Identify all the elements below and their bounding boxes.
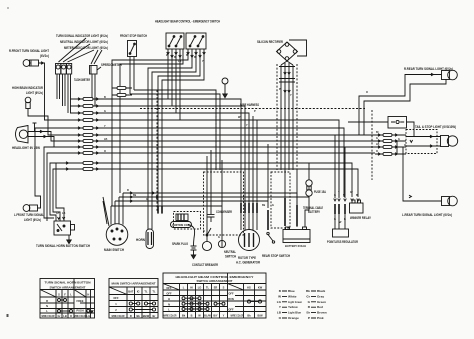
wire colour legend right column bbox=[306, 289, 327, 320]
svg-text:B: B bbox=[203, 230, 205, 233]
svg-text:LB: LB bbox=[376, 143, 380, 146]
dashed harness boundary line bbox=[140, 109, 372, 181]
svg-text:WINKER RELAY: WINKER RELAY bbox=[350, 216, 372, 220]
svg-text:WIRE HARNESS: WIRE HARNESS bbox=[240, 103, 259, 107]
wire bundle from harness down to turn signal switch bbox=[44, 147, 76, 221]
svg-text:Br: Br bbox=[194, 56, 197, 59]
svg-text:TAIL & STOP LIGHT (6V3/10W): TAIL & STOP LIGHT (6V3/10W) bbox=[415, 125, 456, 129]
joint arrows on rectifier bundle bbox=[279, 67, 295, 93]
harness branch wires turning down mid-field bbox=[130, 90, 268, 240]
lamp TAIL & STOP LIGHT bulb bbox=[441, 136, 458, 147]
svg-text:FUSE 15A: FUSE 15A bbox=[314, 190, 327, 194]
svg-text:NEUTRAL: NEUTRAL bbox=[224, 250, 236, 254]
wire from fuse to battery bbox=[305, 197, 309, 227]
lamp L.REAR TURN SIGNAL LIGHT bulb bbox=[442, 196, 458, 206]
lamp R.FRONT TURN SIGNAL LIGHT bulb bbox=[23, 60, 38, 67]
svg-text:POINTLESS REGULATOR: POINTLESS REGULATOR bbox=[327, 240, 359, 244]
MAIN SWITCH label bbox=[104, 248, 125, 252]
lamp HIGH BEAM INDICATOR label bbox=[12, 86, 44, 95]
svg-text:WIRE COLOR: WIRE COLOR bbox=[164, 313, 177, 317]
svg-text:OFF: OFF bbox=[166, 286, 172, 290]
CONDENSER label bbox=[216, 210, 233, 214]
regulator sleeve hatching bbox=[335, 204, 345, 214]
indicator lamp cluster: TURN SIGNAL INDICATOR label bbox=[56, 34, 108, 38]
svg-text:B: B bbox=[174, 56, 176, 59]
lamp HIGH BEAM INDICATOR bulb bbox=[25, 97, 31, 108]
svg-text:O: O bbox=[104, 150, 106, 153]
svg-text:SWITCH: SWITCH bbox=[225, 255, 237, 259]
svg-text:H: H bbox=[87, 292, 89, 296]
svg-text:G: G bbox=[146, 198, 148, 201]
svg-text:OFF: OFF bbox=[166, 292, 172, 296]
neutral indicator bulb bbox=[61, 64, 66, 75]
table TURN SIGNAL HORN BUTTON SWITCH ARRANGEMENT bbox=[40, 279, 95, 319]
beam switch left box bbox=[166, 33, 184, 49]
wires down to battery bbox=[285, 170, 297, 205]
fuse FUSE 15A symbol bbox=[306, 163, 312, 197]
svg-text:Light Green: Light Green bbox=[288, 300, 302, 304]
svg-text:White: White bbox=[288, 294, 297, 298]
svg-text:TL: TL bbox=[144, 290, 148, 294]
indicator lamp cluster: METER INDICATOR label bbox=[64, 46, 108, 50]
ignition coil winding bbox=[176, 214, 188, 221]
generator cable sleeves bbox=[241, 203, 257, 213]
svg-text:Bk: Bk bbox=[182, 313, 186, 317]
scan artifact speck top left bbox=[7, 7, 9, 9]
lamp L.REAR TURN SIGNAL LIGHT label bbox=[402, 213, 452, 217]
lamp R.REAR TURN SIGNAL LIGHT label bbox=[404, 67, 453, 71]
svg-text:TURN SIGNAL INDICATOR LIGHT (6: TURN SIGNAL INDICATOR LIGHT (6V2c) bbox=[56, 34, 108, 38]
svg-text:G: G bbox=[334, 218, 336, 221]
svg-text:MAIN SWITCH: MAIN SWITCH bbox=[104, 248, 125, 252]
svg-text:Blue: Blue bbox=[288, 289, 295, 293]
svg-text:LB: LB bbox=[178, 60, 182, 63]
connector arrow on R rear wire bbox=[431, 73, 433, 76]
svg-text:LO: LO bbox=[198, 285, 202, 289]
vertical wires right harness down bbox=[335, 135, 403, 198]
CONTACT BREAKER label bbox=[192, 263, 219, 267]
wire from R front turn signal to harness bbox=[39, 63, 77, 120]
wires from rectifier down bbox=[281, 61, 293, 170]
silicon rectifier bridge bbox=[277, 42, 298, 61]
svg-text:Bk: Bk bbox=[137, 314, 141, 318]
svg-text:H: H bbox=[168, 297, 170, 301]
TACHOMETER label bbox=[74, 78, 90, 82]
svg-text:BAT: BAT bbox=[128, 290, 134, 294]
svg-text:HEADLIGHT 6V 25W: HEADLIGHT 6V 25W bbox=[12, 146, 40, 150]
svg-text:LG: LG bbox=[86, 314, 90, 318]
svg-text:Br: Br bbox=[376, 131, 379, 134]
pins on top of turn signal switch bbox=[58, 217, 65, 219]
svg-text:B: B bbox=[104, 96, 106, 99]
legend dashes right bbox=[311, 291, 316, 318]
svg-text:TURN SIGNAL HORN BUTTON: TURN SIGNAL HORN BUTTON bbox=[45, 281, 91, 285]
fuse FUSE 15A label bbox=[314, 190, 327, 194]
svg-text:SWITCH ARRANGEMENT: SWITCH ARRANGEMENT bbox=[50, 285, 86, 289]
ground arrow below turn signal switch bbox=[67, 235, 71, 244]
svg-text:Black: Black bbox=[317, 289, 326, 293]
HT lead from ignition coil to spark plug bbox=[188, 225, 195, 247]
svg-text:Pink: Pink bbox=[317, 316, 324, 320]
svg-text:WIRE COLOR: WIRE COLOR bbox=[231, 313, 244, 317]
svg-text:RUN: RUN bbox=[228, 297, 234, 301]
svg-text:O: O bbox=[70, 314, 72, 318]
svg-text:R: R bbox=[46, 299, 48, 303]
callout lines from labels to indicator bulbs bbox=[59, 38, 103, 64]
svg-text:B/Y: B/Y bbox=[213, 313, 218, 317]
switch REAR STOP SWITCH label bbox=[262, 254, 291, 258]
svg-text:BL/W: BL/W bbox=[204, 313, 211, 317]
dashed box around tail light connectors bbox=[406, 130, 437, 154]
battery BATTERY box bbox=[283, 227, 310, 243]
diagonal feed into main switch bbox=[103, 197, 109, 226]
legend dashes left bbox=[282, 291, 287, 318]
pilot lamp with ground arrow near harness bbox=[222, 78, 228, 98]
battery label bbox=[285, 244, 306, 248]
generator ROTOR TYPE A.C. GENERATOR circle bbox=[239, 230, 260, 251]
wires to L rear turn signal bbox=[403, 154, 442, 201]
svg-text:B: B bbox=[191, 313, 193, 317]
wires from indicator bulbs down to harness bbox=[57, 74, 95, 113]
svg-text:BATTERY: BATTERY bbox=[308, 210, 321, 214]
svg-text:Gr: Gr bbox=[56, 212, 59, 215]
svg-text:G: G bbox=[376, 137, 378, 140]
svg-text:G: G bbox=[272, 204, 274, 207]
svg-text:HEADLIGHT BEAM CONTROL EMERGEN: HEADLIGHT BEAM CONTROL EMERGENCY bbox=[176, 275, 254, 279]
wires into regulator bbox=[335, 214, 345, 229]
svg-text:Brown: Brown bbox=[317, 311, 327, 315]
TERMINAL CABLE BATTERY label bbox=[303, 206, 323, 214]
headlight high beam wire bbox=[28, 132, 76, 142]
svg-text:P: P bbox=[308, 316, 310, 320]
lamp TAIL & STOP LIGHT label bbox=[415, 125, 456, 129]
svg-text:N: N bbox=[168, 302, 170, 306]
svg-text:O: O bbox=[366, 91, 368, 94]
switch NEUTRAL SWITCH circle bbox=[218, 240, 225, 247]
meter indicator bulb bbox=[67, 64, 72, 75]
svg-text:W: W bbox=[278, 294, 281, 298]
svg-text:(6V2c): (6V2c) bbox=[40, 54, 49, 58]
svg-text:HG: HG bbox=[247, 285, 251, 289]
lamp L.FRONT TURN SIGNAL LIGHT label bbox=[14, 213, 44, 222]
capacitor CONDENSER symbol bbox=[208, 204, 215, 222]
svg-text:G: G bbox=[104, 110, 106, 113]
connector arrows on tail wires bbox=[410, 135, 432, 147]
connector arrow on L rear wire bbox=[409, 195, 411, 198]
relay WINKER RELAY box bbox=[350, 200, 364, 213]
switch FRONT STOP SWITCH body bbox=[128, 41, 137, 57]
headlight low beam wire bbox=[28, 137, 76, 148]
svg-text:Gr: Gr bbox=[350, 191, 353, 194]
scan artifact speck left edge bbox=[7, 314, 9, 317]
svg-text:L.REAR TURN SIGNAL LIGHT (6V2c: L.REAR TURN SIGNAL LIGHT (6V2c) bbox=[402, 213, 452, 217]
svg-text:LIGHT (6V2c): LIGHT (6V2c) bbox=[26, 91, 43, 95]
dashed vertical near center bbox=[157, 64, 297, 212]
svg-text:HEADLIGHT BEAM CONTROL - EMERG: HEADLIGHT BEAM CONTROL - EMERGENCY SWITC… bbox=[155, 20, 221, 24]
ignition coil feed sleeves bbox=[158, 206, 162, 213]
svg-text:ER: ER bbox=[214, 285, 218, 289]
table MAIN SWITCH ARRANGEMENT bbox=[109, 279, 158, 319]
wires from front stop switch bbox=[130, 57, 134, 95]
svg-text:LB: LB bbox=[62, 212, 66, 215]
svg-text:HIGH BEAM INDICATOR: HIGH BEAM INDICATOR bbox=[12, 86, 44, 90]
svg-text:OFF: OFF bbox=[113, 296, 119, 300]
wire colour code marks bbox=[56, 54, 406, 239]
svg-text:IGNITION COIL: IGNITION COIL bbox=[172, 223, 190, 227]
speedometer connector box bbox=[90, 66, 98, 75]
table HEADLIGHT BEAM CONTROL EMERGENCY SWITCH ARRANGEMENT bbox=[163, 273, 266, 318]
svg-text:Gray: Gray bbox=[317, 294, 324, 298]
svg-text:KW: KW bbox=[258, 285, 263, 289]
svg-text:Y: Y bbox=[223, 313, 225, 317]
svg-text:O: O bbox=[404, 144, 406, 147]
headlight HEADLIGHT 6V 25W symbol bbox=[16, 126, 29, 144]
svg-text:WIRE COLOR: WIRE COLOR bbox=[42, 314, 55, 318]
wire from high beam indicator to harness bbox=[28, 109, 76, 136]
lamp R.REAR TURN SIGNAL LIGHT bulb bbox=[442, 70, 458, 80]
switch FRONT STOP SWITCH label bbox=[120, 34, 148, 38]
svg-text:R: R bbox=[127, 189, 129, 192]
connector arrow on R front signal wire bbox=[41, 62, 43, 65]
svg-text:G: G bbox=[398, 138, 400, 141]
svg-text:R: R bbox=[130, 314, 132, 318]
contact breaker symbol bbox=[202, 228, 211, 251]
svg-text:REAR STOP SWITCH: REAR STOP SWITCH bbox=[262, 254, 291, 258]
svg-text:SPARK PLUG: SPARK PLUG bbox=[172, 242, 188, 246]
svg-text:WIRE COLOR: WIRE COLOR bbox=[74, 314, 87, 318]
svg-text:OFF: OFF bbox=[228, 292, 234, 296]
turn signal indicator bulb bbox=[56, 64, 61, 75]
svg-text:LB: LB bbox=[63, 314, 67, 318]
harness connector stack rows (left column) bbox=[62, 97, 102, 170]
silicon rectifier mounting box bbox=[289, 40, 307, 56]
relay WINKER RELAY label bbox=[350, 216, 372, 220]
switch HEADLIGHT BEAM CONTROL-EMERGENCY SWITCH label bbox=[155, 20, 221, 24]
svg-text:HI: HI bbox=[190, 285, 193, 289]
svg-text:OFF: OFF bbox=[228, 307, 234, 311]
svg-text:A.C. GENERATOR: A.C. GENERATOR bbox=[236, 261, 261, 265]
regulator label bbox=[327, 240, 359, 244]
svg-text:Br: Br bbox=[153, 314, 156, 318]
lamp L.FRONT TURN SIGNAL LIGHT bulb bbox=[23, 205, 37, 212]
svg-text:FREE: FREE bbox=[77, 299, 84, 303]
svg-text:Light Blue: Light Blue bbox=[288, 311, 301, 315]
svg-text:CONTACT BREAKER: CONTACT BREAKER bbox=[192, 263, 219, 267]
svg-text:NEUTRAL INDICATOR LIGHT (6V2c): NEUTRAL INDICATOR LIGHT (6V2c) bbox=[60, 40, 108, 44]
svg-text:ROTOR TYPE: ROTOR TYPE bbox=[238, 256, 256, 260]
SILICON RECTIFIER label bbox=[257, 40, 284, 44]
switch REAR STOP SWITCH bbox=[267, 232, 275, 243]
svg-text:Red: Red bbox=[317, 305, 323, 309]
svg-text:Yellow: Yellow bbox=[288, 305, 298, 309]
callout line speedometer bbox=[97, 67, 101, 70]
connector arrows on bus wires bbox=[130, 192, 158, 203]
svg-text:G: G bbox=[334, 194, 336, 197]
horn HORN symbol bbox=[146, 229, 154, 249]
SPARK PLUG label bbox=[172, 242, 188, 246]
WIRE HARNESS label bbox=[240, 103, 259, 107]
svg-text:HORN: HORN bbox=[136, 238, 146, 242]
svg-text:IG: IG bbox=[137, 290, 140, 294]
wires from main switch up to bus bbox=[111, 193, 123, 225]
long harness horizontal wires to the right bbox=[102, 99, 375, 230]
wires from connectors to tail light bbox=[406, 130, 441, 147]
generator label bbox=[236, 256, 261, 265]
svg-text:PUSH: PUSH bbox=[76, 309, 83, 313]
svg-text:LB: LB bbox=[104, 138, 108, 141]
svg-text:S: S bbox=[58, 292, 60, 296]
svg-text:LG: LG bbox=[277, 300, 282, 304]
svg-text:S: S bbox=[223, 285, 225, 289]
svg-text:TURN SIGNAL HORN BUTTON SWITCH: TURN SIGNAL HORN BUTTON SWITCH bbox=[36, 244, 91, 248]
svg-text:B: B bbox=[186, 54, 188, 57]
small connector pair near tachometer bbox=[112, 86, 132, 96]
wire colour legend left column bbox=[277, 289, 302, 320]
switch TURN SIGNAL HORN BUTTON SWITCH box bbox=[54, 221, 75, 235]
svg-text:O: O bbox=[376, 150, 378, 153]
svg-text:R.FRONT TURN SIGNAL LIGHT: R.FRONT TURN SIGNAL LIGHT bbox=[9, 49, 49, 53]
wires to R rear turn signal bbox=[359, 75, 446, 136]
svg-text:Bk/W: Bk/W bbox=[143, 314, 150, 318]
svg-text:SILICON RECTIFIER: SILICON RECTIFIER bbox=[257, 40, 284, 44]
right connector rows to tail light bbox=[375, 133, 406, 155]
svg-text:TACHOMETER: TACHOMETER bbox=[74, 78, 90, 82]
svg-text:N: N bbox=[46, 304, 48, 308]
wires from beam switch down into harness bbox=[102, 49, 204, 229]
dashed box around battery group bbox=[271, 172, 290, 228]
dashed box around coil bbox=[174, 212, 201, 230]
svg-text:LIGHT (6V2c): LIGHT (6V2c) bbox=[24, 218, 41, 222]
svg-text:B: B bbox=[356, 194, 358, 197]
headlight label bbox=[12, 146, 40, 150]
svg-text:B/W: B/W bbox=[257, 313, 263, 317]
svg-text:Orange: Orange bbox=[288, 316, 299, 320]
connector arrows above winker relay and regulator bbox=[334, 199, 360, 201]
battery cable sleeves bbox=[285, 198, 297, 226]
spark plug SPARK PLUG symbol bbox=[191, 246, 197, 259]
lamp R.FRONT TURN SIGNAL LIGHT label bbox=[9, 49, 49, 58]
regulator POINTLESS REGULATOR box bbox=[333, 229, 349, 237]
tail harness fuse box bbox=[388, 117, 407, 129]
dashed box around ignition group bbox=[204, 172, 244, 235]
svg-text:TL: TL bbox=[206, 285, 210, 289]
svg-text:FRONT STOP SWITCH: FRONT STOP SWITCH bbox=[120, 34, 148, 38]
svg-text:G: G bbox=[218, 236, 220, 239]
headlight pigtail connector bbox=[33, 123, 37, 132]
svg-text:B: B bbox=[344, 218, 346, 221]
svg-text:Bk: Bk bbox=[306, 289, 310, 293]
svg-text:WIRE COLOR: WIRE COLOR bbox=[112, 314, 125, 318]
beam switch right box bbox=[186, 33, 206, 49]
svg-text:Bk: Bk bbox=[247, 313, 251, 317]
indicator lamp cluster: NEUTRAL INDICATOR label bbox=[60, 40, 108, 44]
connector arrows on headlight wires bbox=[40, 130, 46, 138]
switch NEUTRAL SWITCH label bbox=[224, 250, 237, 259]
wire into fuse box from harness bbox=[348, 122, 414, 129]
svg-text:BATTERY 6V4AH: BATTERY 6V4AH bbox=[285, 244, 306, 248]
IGNITION COIL label with outline bbox=[171, 222, 192, 228]
SPEEDOMETER label bbox=[101, 63, 123, 67]
svg-text:L.FRONT TURN SIGNAL: L.FRONT TURN SIGNAL bbox=[14, 213, 44, 217]
main bus wires from main switch to battery area bbox=[111, 193, 309, 227]
svg-text:Green: Green bbox=[317, 300, 326, 304]
svg-text:MAIN SWITCH ARRANGEMENT: MAIN SWITCH ARRANGEMENT bbox=[112, 282, 156, 286]
main switch MAIN SWITCH circle bbox=[106, 224, 128, 246]
connector arrows below beam switch bbox=[167, 52, 206, 57]
rear stop switch sleeve bbox=[267, 210, 269, 230]
switch TURN SIGNAL HORN BUTTON SWITCH label bbox=[36, 244, 91, 248]
svg-text:CONDENSER: CONDENSER bbox=[216, 210, 233, 214]
HORN label bbox=[136, 238, 146, 242]
svg-text:TL: TL bbox=[152, 290, 156, 294]
wire from L front turn signal up to harness bbox=[35, 128, 76, 208]
svg-text:Gr: Gr bbox=[57, 314, 60, 318]
